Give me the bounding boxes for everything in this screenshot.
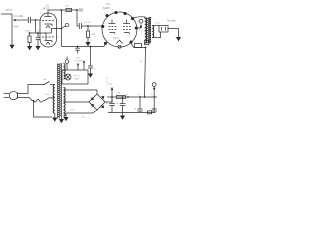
tube V2 socket circle xyxy=(102,12,137,47)
wire cathode network xyxy=(30,33,47,40)
wire HV bottom to bridge xyxy=(64,101,90,103)
wire bridge output xyxy=(105,97,112,102)
wire to ground speaker xyxy=(168,29,179,38)
svg-text:1.5K: 1.5K xyxy=(116,93,121,95)
wire bridge return xyxy=(66,110,97,117)
ground filter bus xyxy=(120,113,125,120)
capacitor C5 heater bypass xyxy=(88,47,96,74)
wire C1 to V1 grid xyxy=(31,19,42,21)
tube V1 lower heater xyxy=(46,42,50,45)
transformer T1 heater winding xyxy=(64,64,66,79)
capacitor C1 xyxy=(28,17,30,23)
svg-text:6.3V: 6.3V xyxy=(76,58,81,60)
node Rk junction xyxy=(29,32,31,34)
svg-text:500K: 500K xyxy=(14,27,20,29)
node plate junction xyxy=(61,9,63,11)
pin 9 xyxy=(118,45,121,48)
pin 2 xyxy=(105,14,108,17)
svg-text:C4 .02: C4 .02 xyxy=(84,22,91,24)
speaker terminal block xyxy=(159,26,168,33)
arrow stub b xyxy=(83,60,85,63)
tube V1 lower triode plate xyxy=(45,28,63,33)
pin 7 xyxy=(129,40,132,43)
wire primary bottom xyxy=(54,100,56,102)
wire fuse to T1 xyxy=(49,97,55,99)
svg-text:47K: 47K xyxy=(65,6,69,8)
capacitor heater filter xyxy=(75,47,80,54)
resistor R5 screen xyxy=(135,44,142,48)
wire heater run xyxy=(62,44,106,47)
node filter1 xyxy=(111,96,113,98)
ground C2 xyxy=(35,46,40,50)
label B plus mark xyxy=(80,8,82,12)
capacitor C8 xyxy=(135,96,143,112)
wire input lead xyxy=(1,13,12,15)
wire plate to coupling cap xyxy=(76,10,78,26)
wire chassis run xyxy=(34,101,53,117)
node V2 grid pin xyxy=(101,25,104,28)
transformer T2 output primary winding xyxy=(145,17,147,44)
transformer T2 secondary winding xyxy=(152,26,154,38)
wire T1 primary shield ground xyxy=(54,114,56,118)
svg-text:V-2: V-2 xyxy=(106,2,110,6)
tube V1 upper heater xyxy=(46,26,50,29)
terminal heater circle xyxy=(152,83,156,97)
lamp pilot xyxy=(65,74,71,80)
terminal B plus arrow xyxy=(139,19,143,27)
pin 3 xyxy=(114,11,117,14)
wire T1 core ground xyxy=(60,118,62,121)
node bypass junction xyxy=(90,46,92,48)
pin 5 xyxy=(131,17,134,20)
svg-text:6AQ5: 6AQ5 xyxy=(114,37,120,40)
wire secondary bottom xyxy=(152,32,160,38)
pin 4 xyxy=(123,12,126,15)
pin 8 xyxy=(104,42,107,45)
node grid junction xyxy=(35,19,37,21)
wire secondary top xyxy=(152,25,159,27)
svg-text:117V: 117V xyxy=(70,110,75,112)
tube V2 internal elements xyxy=(109,20,131,44)
wire B+ drop line xyxy=(145,48,146,98)
tube V1 upper triode plate xyxy=(45,13,52,17)
ground T1 b xyxy=(59,119,64,123)
tube V1 lower triode grid xyxy=(42,36,54,38)
wire plate to OPT xyxy=(133,17,145,18)
node B+ line join xyxy=(144,96,146,98)
transformer T1 HV winding xyxy=(64,87,66,116)
pin 1 xyxy=(101,25,104,28)
terminal B+ arrow up xyxy=(111,87,114,97)
terminal small rect on bus xyxy=(148,111,152,114)
transformer T1 primary winding xyxy=(53,85,55,114)
tube V1 upper triode grid xyxy=(42,20,54,22)
terminal test point xyxy=(62,23,68,27)
ground T1 a xyxy=(52,118,57,122)
node heater cap junction xyxy=(77,46,79,48)
pin 6 xyxy=(135,26,138,29)
svg-text:+275V: +275V xyxy=(106,84,113,86)
node screen supply xyxy=(145,47,147,49)
ground speaker xyxy=(176,37,181,41)
plug AC xyxy=(4,91,18,99)
wire plug bottom branch xyxy=(18,97,34,100)
resistor R2 grid leak xyxy=(28,33,31,46)
capacitor C9 xyxy=(152,96,157,113)
svg-text:VOLUME: VOLUME xyxy=(14,16,24,18)
transformer T1 core xyxy=(57,63,61,118)
wire pot bottom to ground xyxy=(11,31,13,44)
heater box pilot circuit xyxy=(62,70,88,84)
svg-text:LAMP: LAMP xyxy=(74,78,80,81)
resistor R4 grid leak xyxy=(86,25,89,42)
transformer T2 core xyxy=(146,17,150,43)
resistor R6 filter xyxy=(117,95,126,98)
svg-text:6AQ5: 6AQ5 xyxy=(103,6,110,10)
wire B+ bus top xyxy=(48,10,79,13)
svg-text:To V.C.: To V.C. xyxy=(155,22,161,24)
switch S1 xyxy=(44,82,50,85)
capacitor C7 xyxy=(117,96,126,112)
wire B+ bus xyxy=(107,96,157,98)
tube V1 envelope xyxy=(40,13,57,47)
wire V2 cathode to resistor xyxy=(131,44,146,48)
svg-text:Sw.: Sw. xyxy=(43,79,47,81)
wire C4 to V2 grid xyxy=(82,25,103,27)
wire plug top branch xyxy=(18,85,44,94)
tube V1 lower triode cathode xyxy=(45,41,53,43)
wire V1 plate drop xyxy=(61,10,63,47)
svg-text:INPUT: INPUT xyxy=(5,9,13,12)
tube V1 upper triode cathode xyxy=(45,24,53,26)
svg-text:TO HTRS.: TO HTRS. xyxy=(74,61,85,63)
capacitor C2 cathode bypass xyxy=(36,33,41,46)
wire ground bus xyxy=(108,112,155,115)
ground R4 xyxy=(85,42,90,46)
ground bridge return xyxy=(63,117,68,121)
wire screen terminal xyxy=(137,25,141,29)
fuse F1 xyxy=(34,99,43,102)
terminal square xyxy=(145,40,149,44)
wire HV top to bridge xyxy=(64,90,98,94)
node chassis junction xyxy=(33,100,35,102)
arrow stub a xyxy=(77,63,79,66)
switch S1 second pole xyxy=(43,98,50,101)
svg-text:PILOT: PILOT xyxy=(74,76,81,78)
wire grid leak drop xyxy=(35,20,37,33)
wire switch to T1 xyxy=(50,84,55,86)
node Ck junction xyxy=(37,32,39,34)
potentiometer R1 volume xyxy=(12,14,18,31)
svg-text:Speaker: Speaker xyxy=(167,20,176,23)
terminal dial lamp xyxy=(65,57,69,71)
svg-text:470K: 470K xyxy=(91,34,97,36)
ground R2 xyxy=(27,46,32,50)
ground pot xyxy=(9,44,14,49)
capacitor C6 xyxy=(106,97,115,113)
rectifier bridge xyxy=(89,94,105,110)
node filter2 xyxy=(127,96,129,98)
node B+ junction xyxy=(76,9,78,11)
svg-text:500K: 500K xyxy=(25,31,31,33)
resistor R3 plate load xyxy=(66,8,72,11)
ground C5 xyxy=(88,74,93,78)
wire wiper to C1 xyxy=(18,19,29,21)
wire heater stubs xyxy=(78,63,84,71)
capacitor C4 coupling xyxy=(77,23,82,29)
